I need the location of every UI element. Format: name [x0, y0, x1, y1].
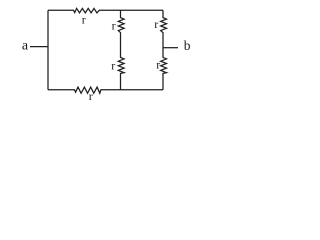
svg-text:r: r — [154, 17, 158, 31]
svg-text:r: r — [111, 58, 115, 72]
svg-text:r: r — [156, 57, 160, 71]
svg-text:r: r — [89, 89, 93, 103]
svg-text:r: r — [112, 19, 116, 33]
svg-text:b: b — [184, 38, 191, 53]
svg-text:r: r — [82, 13, 86, 27]
svg-text:a: a — [22, 38, 29, 53]
